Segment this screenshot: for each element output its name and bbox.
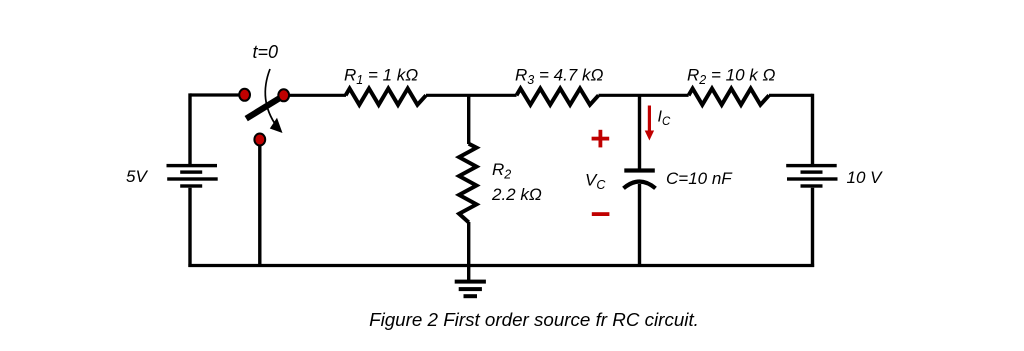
wire right vertical (10V top lead) <box>811 94 814 164</box>
svg-text:R2 = 10 k Ω: R2 = 10 k Ω <box>687 66 775 88</box>
svg-text:R1 = 1 kΩ: R1 = 1 kΩ <box>344 66 418 88</box>
wire R1 to R3 (junction node) <box>426 94 517 97</box>
wire switch right dot to R1 <box>289 94 347 97</box>
svg-text:VC: VC <box>585 171 606 193</box>
switch contact dot bottom <box>254 134 265 146</box>
wire capacitor bottom lead <box>638 184 641 266</box>
ground bar 3 <box>464 294 478 298</box>
svg-text:R3 = 4.7 kΩ: R3 = 4.7 kΩ <box>515 66 603 88</box>
capacitor C curved plate <box>624 182 656 189</box>
battery B2 10V plate long <box>787 177 838 180</box>
switch SW1 blade <box>246 94 287 119</box>
wire 5V bottom lead <box>188 188 191 267</box>
capacitor C top plate <box>624 168 655 172</box>
svg-text:C=10 nF: C=10 nF <box>666 169 733 188</box>
current arrow Ic <box>648 106 651 133</box>
label minus <box>592 212 610 216</box>
svg-text:Figure 2 First order source fr: Figure 2 First order source fr RC circui… <box>369 309 699 330</box>
wire bottom rail <box>188 264 814 267</box>
ground bar 1 <box>455 280 486 284</box>
battery B1 5V plate long top <box>167 164 218 167</box>
svg-text:R2: R2 <box>492 160 511 182</box>
wire left vertical (5V top lead) <box>188 93 191 164</box>
svg-text:IC: IC <box>658 109 671 129</box>
battery B2 10V plate short <box>801 170 823 173</box>
battery B2 10V plate long top <box>786 164 837 167</box>
wire R2 vertical bottom lead <box>467 222 470 281</box>
wire switch bottom dot to bottom rail <box>258 145 261 266</box>
resistor R2 10 kOhm <box>689 89 769 105</box>
wire 10V bottom lead <box>811 188 814 267</box>
resistor R3 4.7 kOhm <box>517 89 599 105</box>
ground bar 2 <box>459 287 482 291</box>
svg-text:2.2 kΩ: 2.2 kΩ <box>491 185 542 204</box>
svg-text:5V: 5V <box>126 167 148 186</box>
svg-text:10 V: 10 V <box>847 168 884 187</box>
switch contact dot right <box>278 89 289 101</box>
battery B1 5V plate short bottom <box>180 184 202 187</box>
resistor R1 1 kOhm <box>346 89 426 105</box>
label plus <box>592 130 610 148</box>
wire R2 to right corner <box>769 94 813 97</box>
wire capacitor top lead <box>638 95 641 169</box>
battery B1 5V plate long <box>167 177 218 180</box>
svg-text:t=0: t=0 <box>253 42 279 62</box>
switch contact dot left <box>239 89 250 101</box>
battery B1 5V plate short <box>180 170 202 173</box>
wire top-left segment <box>190 93 240 96</box>
battery B2 10V plate short bottom <box>801 184 823 187</box>
resistor R2 2.2 kOhm vertical <box>459 144 476 223</box>
switch actuation arrow <box>265 69 276 126</box>
wire R2 vertical top lead <box>467 95 470 144</box>
wire R3 to R2 top (capacitor node) <box>599 94 689 97</box>
